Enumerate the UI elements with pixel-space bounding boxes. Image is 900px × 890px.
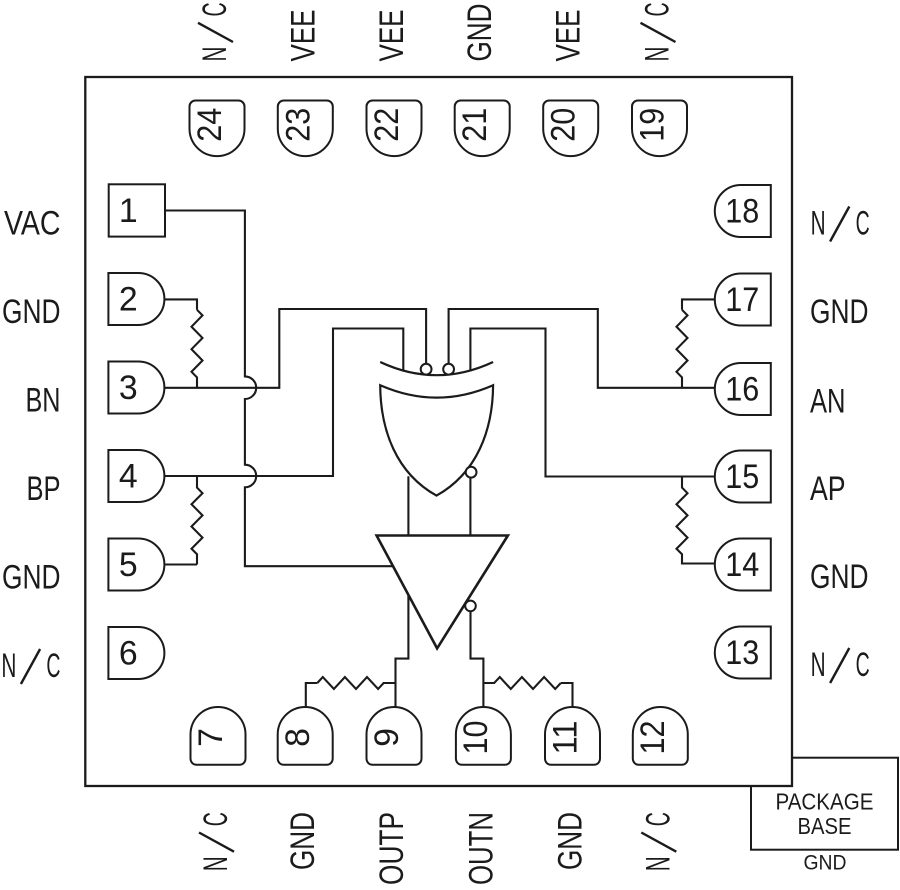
svg-text:24: 24	[191, 108, 229, 142]
XOR/comparator gate U1 input curve	[380, 362, 493, 375]
svg-text:4: 4	[119, 458, 138, 496]
pin 4	[108, 450, 164, 502]
pin 18	[715, 185, 771, 237]
svg-text:C: C	[46, 647, 60, 685]
svg-text:16: 16	[725, 371, 759, 409]
wire: pin5 GND	[164, 563, 197, 565]
svg-text:12: 12	[634, 721, 672, 755]
resistor R5 (GND pin8 to OUTP wire)	[317, 677, 395, 689]
svg-text:8: 8	[279, 728, 317, 747]
svg-text:GND: GND	[810, 293, 869, 331]
svg-text:OUTP: OUTP	[373, 812, 411, 885]
pin 15	[715, 451, 771, 503]
pin 13	[715, 627, 771, 679]
svg-text:C: C	[197, 812, 235, 826]
pin 17	[715, 274, 771, 326]
svg-text:14: 14	[725, 546, 759, 584]
svg-text:GND: GND	[552, 812, 590, 870]
svg-text:20: 20	[545, 108, 583, 142]
pin 10	[456, 707, 511, 765]
wire: pin1 VAC net, hops over BN and BP wires, to amp left input	[165, 211, 394, 567]
svg-text:C: C	[856, 205, 870, 243]
svg-text:GND: GND	[461, 4, 499, 62]
pin 11	[545, 707, 600, 765]
svg-text:18: 18	[725, 193, 759, 231]
pin 2	[108, 273, 164, 325]
svg-text:GND: GND	[2, 559, 61, 597]
wire: amp left output to pin9 OUTP	[396, 595, 409, 708]
svg-text:BASE: BASE	[798, 813, 852, 839]
resistor R2 (BP wire to GND pin5)	[192, 476, 203, 565]
XOR input bubble (AN)	[443, 364, 454, 375]
wire: pin16 AN to XOR inverting input (right bubble)	[449, 309, 715, 388]
net label N/C (left)	[1, 647, 60, 685]
svg-text:GND: GND	[810, 558, 869, 596]
svg-text:11: 11	[546, 721, 584, 755]
svg-text:6: 6	[119, 635, 138, 673]
resistor R6 (OUTN wire to GND pin11)	[483, 677, 560, 689]
svg-text:GND: GND	[2, 293, 61, 331]
svg-text:15: 15	[725, 458, 759, 496]
pin 22	[367, 101, 422, 157]
wire: pin15 AP to XOR right non-inverting input	[470, 329, 714, 477]
svg-text:N: N	[1, 647, 16, 685]
svg-text:13: 13	[725, 634, 759, 672]
pin 7	[191, 707, 246, 765]
svg-text:N: N	[811, 205, 826, 243]
wire: pin17 GND to resistor R3	[682, 299, 715, 309]
wire: XOR bubble output to amp input	[469, 478, 471, 536]
pin 3	[108, 362, 164, 414]
svg-text:C: C	[196, 2, 234, 16]
svg-text:C: C	[856, 646, 870, 684]
svg-text:AP: AP	[810, 470, 846, 508]
svg-text:1: 1	[119, 192, 138, 230]
svg-text:GND: GND	[284, 812, 322, 870]
pin 1 (VAC)	[109, 184, 165, 236]
svg-text:VEE: VEE	[284, 10, 322, 62]
svg-text:BN: BN	[26, 382, 61, 420]
svg-text:C: C	[639, 812, 677, 826]
svg-text:N: N	[196, 47, 234, 62]
pin 19	[632, 101, 687, 157]
package base box	[751, 758, 898, 850]
net label N/C (right)	[811, 205, 870, 243]
svg-text:GND: GND	[804, 851, 847, 875]
wire: pin2 GND to resistor R1	[164, 299, 197, 309]
svg-text:10: 10	[457, 721, 495, 755]
IC package outline	[85, 77, 792, 786]
svg-text:VEE: VEE	[373, 10, 411, 62]
amplifier U2 triangle	[377, 536, 508, 649]
pin 5	[108, 539, 164, 591]
wire: XOR left output to amp input	[407, 476, 409, 535]
net label N/C (bottom)	[639, 812, 677, 871]
XOR/comparator gate U1 body	[380, 385, 493, 495]
svg-text:19: 19	[634, 108, 672, 142]
pin 8	[278, 707, 333, 765]
svg-text:17: 17	[725, 281, 759, 319]
amp output bubble	[465, 601, 476, 612]
XOR output bubble	[466, 467, 477, 478]
svg-text:OUTN: OUTN	[462, 812, 500, 885]
svg-text:C: C	[639, 2, 677, 16]
pin 12	[633, 707, 688, 765]
pin 16	[715, 363, 771, 415]
net label N/C (right)	[811, 646, 870, 684]
svg-text:VAC: VAC	[4, 205, 61, 243]
net label N/C (top)	[639, 2, 677, 61]
svg-text:N: N	[639, 856, 677, 871]
wire: pin11 GND stub	[561, 683, 573, 707]
svg-text:VEE: VEE	[550, 10, 588, 62]
wire: pin8 GND stub	[306, 683, 318, 707]
resistor R1 (GND pin2 to BN wire)	[192, 310, 203, 388]
pin 20	[543, 101, 598, 157]
svg-text:N: N	[811, 646, 826, 684]
svg-text:3: 3	[119, 369, 138, 407]
svg-text:BP: BP	[27, 470, 61, 508]
svg-text:22: 22	[368, 108, 406, 142]
pin 9	[367, 707, 422, 765]
svg-text:5: 5	[119, 546, 138, 584]
wire: pin3 BN to XOR inverting input (left bubble)	[164, 309, 426, 388]
net label N/C (top)	[196, 2, 234, 61]
svg-text:N: N	[639, 47, 677, 62]
svg-text:21: 21	[456, 108, 494, 142]
pin 21	[455, 101, 510, 157]
wire: pin4 BP to XOR left non-inverting input	[164, 329, 403, 477]
resistor R3 (GND pin17 to AN wire)	[677, 310, 688, 388]
pin 24	[190, 101, 245, 157]
svg-text:PACKAGE: PACKAGE	[776, 789, 874, 815]
pin 23	[278, 101, 333, 157]
pin 14	[715, 539, 771, 591]
pin 6	[108, 627, 164, 679]
svg-text:9: 9	[368, 728, 406, 747]
svg-text:7: 7	[192, 728, 230, 747]
XOR input bubble (BN)	[421, 364, 432, 375]
wire: amp bubble output to pin10 OUTN	[471, 611, 484, 707]
svg-text:23: 23	[279, 108, 317, 142]
resistor R4 (AP wire to GND pin14)	[677, 477, 715, 564]
svg-text:2: 2	[119, 281, 138, 319]
svg-text:N: N	[197, 856, 235, 871]
net label N/C (bottom)	[197, 812, 235, 871]
svg-text:AN: AN	[810, 383, 846, 421]
